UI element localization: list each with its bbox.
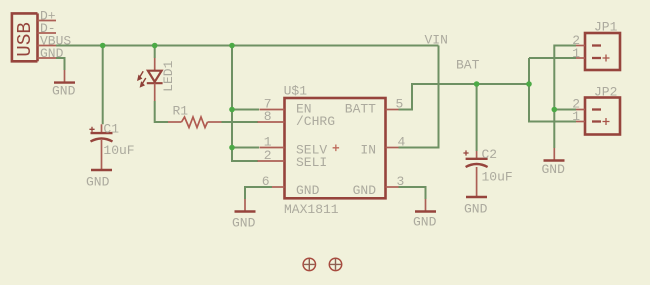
svg-text:BATT: BATT <box>345 101 376 116</box>
svg-text:4: 4 <box>398 135 406 150</box>
svg-text:VIN: VIN <box>425 33 448 48</box>
svg-text:U$1: U$1 <box>284 83 308 98</box>
svg-text:LED1: LED1 <box>161 60 176 91</box>
svg-text:IN: IN <box>360 142 376 157</box>
svg-text:GND: GND <box>464 202 488 217</box>
svg-text:JP2: JP2 <box>594 84 617 99</box>
svg-text:1: 1 <box>572 109 580 124</box>
svg-text:MAX1811: MAX1811 <box>284 202 339 217</box>
svg-text:BAT: BAT <box>456 57 480 72</box>
svg-text:10uF: 10uF <box>103 143 134 158</box>
svg-text:GND: GND <box>542 162 566 177</box>
svg-text:GND: GND <box>413 215 437 230</box>
svg-text:6: 6 <box>262 174 270 189</box>
svg-text:GND: GND <box>296 183 320 198</box>
svg-text:10uF: 10uF <box>482 169 513 184</box>
svg-text:GND: GND <box>40 46 64 61</box>
svg-text:SELI: SELI <box>296 155 327 170</box>
svg-text:1: 1 <box>572 46 580 61</box>
svg-text:5: 5 <box>396 97 404 112</box>
svg-text:C2: C2 <box>482 147 498 162</box>
svg-text:/CHRG: /CHRG <box>296 114 335 129</box>
svg-text:3: 3 <box>397 174 405 189</box>
svg-text:C1: C1 <box>103 121 119 136</box>
svg-text:R1: R1 <box>173 104 189 119</box>
svg-text:GND: GND <box>52 84 76 99</box>
svg-text:8: 8 <box>264 109 272 124</box>
svg-text:JP1: JP1 <box>594 19 618 34</box>
svg-text:GND: GND <box>232 215 256 230</box>
svg-text:USB: USB <box>14 22 36 57</box>
svg-text:GND: GND <box>86 175 110 190</box>
svg-text:GND: GND <box>353 183 377 198</box>
svg-text:2: 2 <box>264 148 272 163</box>
